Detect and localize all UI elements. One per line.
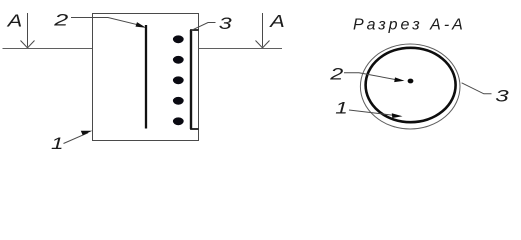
leader 2 arrowhead xyxy=(136,22,147,28)
thick circle xyxy=(366,48,456,122)
leader 2 right xyxy=(344,73,399,81)
centerline right xyxy=(199,48,283,50)
leader 1 arrowhead xyxy=(81,131,93,136)
leader 2 right arrowhead xyxy=(394,77,404,82)
svg-text:3: 3 xyxy=(219,14,233,33)
body rectangle xyxy=(93,14,199,141)
dot 2 xyxy=(173,56,184,64)
svg-text:A: A xyxy=(7,10,23,30)
outer thin circle xyxy=(360,44,460,129)
svg-text:1: 1 xyxy=(51,134,64,153)
bracket thick edge xyxy=(190,30,192,129)
section arrow line left xyxy=(27,13,29,47)
dot 1 xyxy=(173,35,184,43)
centerline left xyxy=(3,48,93,50)
svg-text:A: A xyxy=(269,11,285,31)
dot 4 xyxy=(173,97,184,105)
svg-text:3: 3 xyxy=(495,86,509,105)
dot 3 xyxy=(173,76,184,84)
leader 2 left xyxy=(71,18,142,26)
leader 3 right xyxy=(462,83,492,94)
section arrow line right xyxy=(262,13,264,47)
leader 1 left xyxy=(64,133,89,144)
center dot xyxy=(408,79,414,84)
svg-text:1: 1 xyxy=(335,99,348,118)
leader 1 right arrowhead xyxy=(392,113,403,118)
bracket strip xyxy=(191,30,199,129)
svg-text:Разрез А-А: Разрез А-А xyxy=(353,17,466,34)
svg-text:2: 2 xyxy=(329,64,344,83)
section arrowhead left xyxy=(21,41,35,48)
svg-text:2: 2 xyxy=(53,11,69,30)
thick electrode line xyxy=(145,25,147,129)
dot 5 xyxy=(173,117,184,125)
leader 3 left xyxy=(192,23,216,31)
leader 1 right xyxy=(349,110,397,116)
section arrowhead right xyxy=(256,41,270,48)
